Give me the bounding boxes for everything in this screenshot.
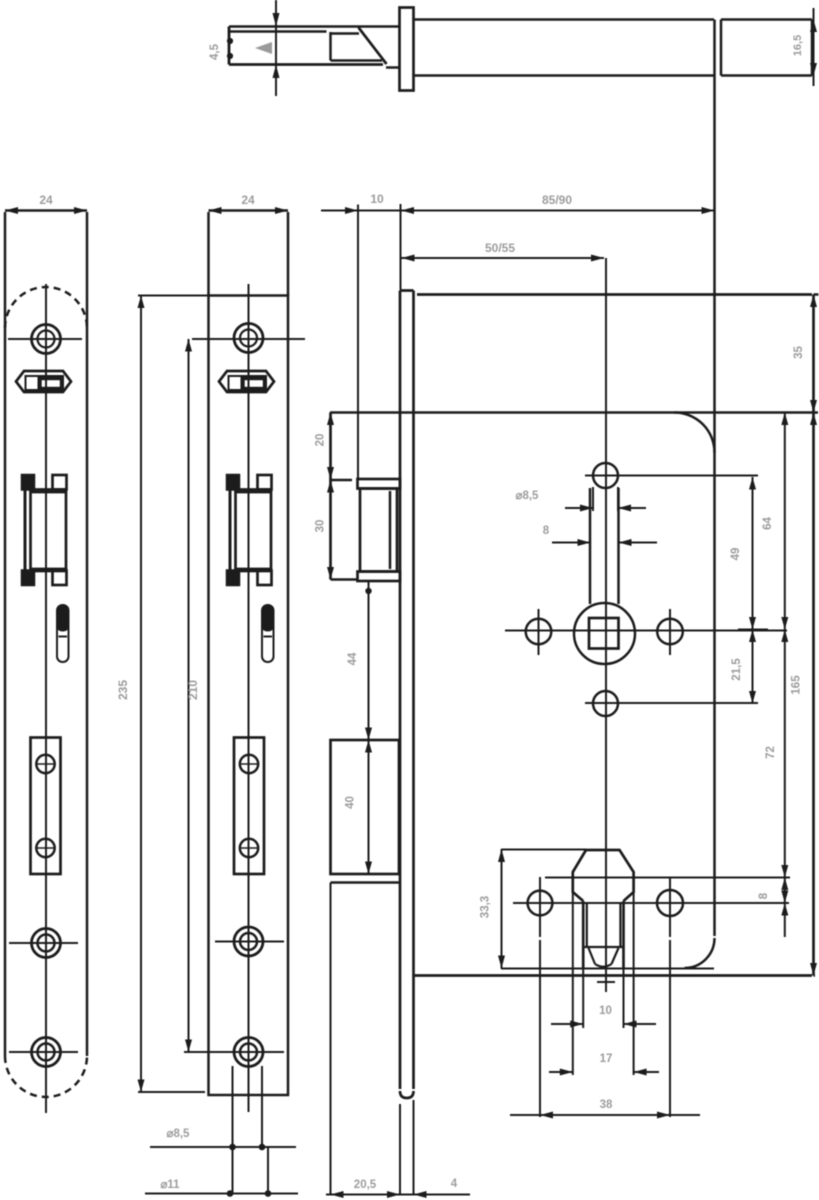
svg-text:35: 35 (793, 346, 805, 359)
svg-text:17: 17 (600, 1053, 613, 1065)
svg-text:210: 210 (186, 680, 200, 700)
svg-text:24: 24 (39, 193, 53, 207)
svg-text:40: 40 (345, 796, 357, 809)
svg-text:⌀11: ⌀11 (160, 1179, 180, 1191)
svg-text:4,5: 4,5 (209, 43, 221, 60)
svg-text:4: 4 (451, 1178, 458, 1190)
svg-text:44: 44 (347, 652, 359, 665)
svg-text:21,5: 21,5 (731, 658, 743, 681)
svg-text:8: 8 (758, 892, 770, 899)
svg-text:⌀8,5: ⌀8,5 (516, 490, 540, 502)
svg-text:⌀8,5: ⌀8,5 (167, 1128, 191, 1140)
svg-text:49: 49 (730, 548, 742, 561)
svg-text:235: 235 (116, 680, 130, 700)
svg-text:16,5: 16,5 (792, 35, 804, 56)
svg-text:85/90: 85/90 (542, 193, 572, 207)
svg-text:10: 10 (599, 1005, 612, 1017)
svg-text:165: 165 (791, 675, 803, 695)
svg-text:33,3: 33,3 (480, 896, 492, 918)
svg-text:10: 10 (370, 192, 384, 206)
svg-text:50/55: 50/55 (485, 241, 515, 255)
svg-text:38: 38 (600, 1099, 613, 1111)
svg-text:20: 20 (315, 434, 327, 447)
svg-text:8: 8 (543, 525, 550, 537)
svg-text:30: 30 (315, 520, 327, 533)
svg-text:20,5: 20,5 (354, 1179, 377, 1191)
svg-text:24: 24 (241, 193, 255, 207)
svg-text:64: 64 (762, 517, 774, 530)
svg-text:72: 72 (765, 746, 777, 759)
